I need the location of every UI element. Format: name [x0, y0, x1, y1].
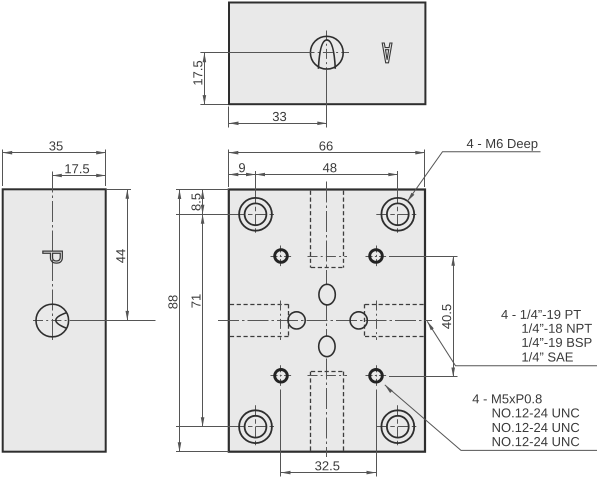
- dim 17.5 top-view upper arrow: [203, 53, 207, 63]
- dim 33 dimension line: [229, 123, 327, 125]
- dim 71 top arrow: [201, 214, 205, 224]
- leader to M6 hole arrow: [407, 193, 414, 202]
- dim 33 left arrow: [229, 122, 239, 126]
- dim 9-48 extension line left hole: [255, 171, 257, 196]
- dim 35 dimension line: [3, 152, 106, 154]
- leader to M5 hole arrow: [385, 385, 393, 393]
- hidden right slot top edge: [365, 304, 424, 306]
- gauge port oval lower: [319, 336, 335, 357]
- dim 88 top arrow: [178, 190, 182, 200]
- dim 88 label: [168, 295, 177, 308]
- dim 35 extension line left: [2, 150, 4, 187]
- top view port hole P circle: [310, 36, 343, 69]
- M6 mounting hole top-right: [376, 193, 419, 236]
- dim 17.5 top-view label: [193, 61, 202, 85]
- M6 mounting hole bottom-left: [234, 405, 277, 448]
- dim 44 extension line at circle center: [75, 320, 156, 322]
- left dims extension line at plate bottom: [176, 451, 229, 453]
- hidden top slot left edge: [310, 191, 312, 268]
- centerline tick across top slot: [308, 256, 348, 258]
- note M5 thread line 1: [472, 394, 541, 403]
- note M5 thread line 3: [493, 423, 580, 432]
- hidden right slot bottom edge: [365, 336, 424, 338]
- dim 35 label: [49, 141, 62, 150]
- left dims extension line at plate top: [176, 189, 229, 191]
- M5 valve mounting hole top-left: [271, 246, 292, 267]
- dim 66 left arrow: [229, 151, 239, 155]
- dim 33 label: [273, 112, 286, 121]
- front view vertical centerline: [326, 182, 328, 458]
- dim 35 right arrow: [96, 151, 106, 155]
- dim 40.5 top arrow: [451, 256, 455, 266]
- hidden top slot bottom edge: [311, 267, 344, 269]
- leader to side port line: [427, 321, 597, 366]
- hidden bottom slot left edge: [310, 372, 312, 451]
- dim 44 extension line top: [106, 189, 131, 191]
- dim 8.5 top arrow: [201, 190, 205, 200]
- M6 mounting hole bottom-right: [376, 405, 419, 448]
- dim 17.5 top-view lower arrow: [203, 95, 207, 105]
- left dims extension line at bottom hole row: [176, 426, 237, 428]
- dim 48 left arrow: [256, 173, 266, 177]
- leader to M5 hole line: [385, 385, 597, 451]
- left view plate body: [3, 189, 106, 451]
- left view port cone beak: [56, 313, 67, 329]
- dim 33 right arrow: [317, 122, 327, 126]
- dim 9 label: [239, 163, 245, 172]
- dim 9-48 extension line right hole: [397, 171, 399, 196]
- M5 valve mounting hole top-right: [366, 246, 387, 267]
- dim 32.5 left arrow: [281, 471, 291, 475]
- dim 66 right arrow: [415, 151, 425, 155]
- dim 35 extension line right: [105, 150, 107, 187]
- dim 17.5 left-view dimension line: [52, 175, 105, 177]
- dim 71 dimension line: [202, 214, 204, 426]
- note port thread line 1: [501, 309, 581, 319]
- M5 valve mounting hole bottom-left: [271, 365, 292, 386]
- note port thread line 2: [522, 323, 592, 333]
- dim 48 dimension line: [256, 174, 398, 176]
- dim 66 dimension line: [229, 152, 425, 154]
- top view plate body: [229, 3, 425, 105]
- top view port spool dome: [318, 40, 335, 69]
- left dims extension line at top hole row: [176, 214, 237, 216]
- dim 44 dimension line: [127, 189, 129, 320]
- leader to side port arrow: [427, 321, 434, 330]
- left view vertical centerline: [52, 172, 54, 343]
- dim 44 label: [116, 249, 125, 263]
- left view port circle: [36, 304, 69, 337]
- gauge port oval upper: [319, 284, 335, 305]
- left view stamped letter P (rotated 90): [43, 251, 63, 263]
- dim 9 dimension line: [229, 174, 256, 176]
- hidden bottom slot right edge: [343, 372, 345, 451]
- leader to M6 hole line: [407, 152, 540, 202]
- dim 17.5 top-view dimension line: [204, 53, 206, 105]
- hidden right slot left edge: [364, 304, 366, 336]
- dim 17.5 top-view extension line at circle center: [200, 52, 311, 54]
- note M5 thread line 2: [493, 408, 580, 417]
- centerline tick across right slot: [376, 301, 378, 341]
- dim 48 right arrow: [388, 173, 398, 177]
- dim 32.5 extension line left: [280, 390, 282, 477]
- dim 33 extension line left: [228, 107, 230, 128]
- hidden left slot top edge: [230, 304, 289, 306]
- hidden bottom slot top edge: [311, 371, 344, 373]
- dim 35 left arrow: [3, 151, 13, 155]
- dim 32.5 right arrow: [367, 471, 377, 475]
- dim 66 label: [319, 141, 332, 150]
- dim 32.5 extension line right: [376, 390, 378, 477]
- dim 32.5 label: [315, 461, 339, 470]
- dim 17.5 left-view right arrow: [96, 174, 106, 178]
- dim 71 label: [192, 294, 201, 307]
- dim 8.5 label: [191, 194, 200, 211]
- note port thread line 3: [522, 337, 591, 347]
- centerline tick across left slot: [280, 301, 282, 341]
- dim 40.5 label: [442, 304, 451, 328]
- centerline tick across bottom slot: [308, 375, 348, 377]
- dim 40.5 bottom arrow: [451, 368, 455, 378]
- dim 17.5 left-view left arrow: [52, 174, 62, 178]
- dim 40.5 extension line top: [389, 256, 458, 258]
- dim 48 label: [323, 163, 337, 172]
- dim 17.5 top-view extension line at plate bottom: [200, 104, 228, 106]
- left view port circle horizontal centerline: [33, 320, 75, 322]
- M6 mounting hole top-left: [234, 193, 277, 236]
- dim 66 extension line right: [424, 150, 426, 188]
- front view plate body: [229, 190, 425, 452]
- top view stamped letter A (upside down): [382, 43, 392, 63]
- dim 8.5 dimension line: [202, 190, 204, 215]
- M5 valve mounting hole bottom-right: [366, 365, 387, 386]
- dim 8.5 bottom arrow: [201, 205, 205, 215]
- dim 88 bottom arrow: [178, 442, 182, 452]
- dim 71 bottom arrow: [201, 417, 205, 427]
- side port circle right: [350, 312, 367, 329]
- dim 44 top arrow: [126, 189, 130, 199]
- side port circle left: [288, 312, 305, 329]
- note M5 thread line 4: [493, 437, 580, 446]
- top view projection line from port circle to 33 dim: [326, 69, 328, 127]
- top view port hole horizontal centerline: [305, 52, 350, 54]
- dim 9 right arrow: [246, 173, 256, 177]
- dim 17.5 left-view label: [65, 164, 89, 173]
- note port thread line 4: [522, 352, 572, 362]
- hidden left slot bottom edge: [230, 336, 289, 338]
- top view port hole vertical centerline: [326, 31, 328, 75]
- dim 32.5 dimension line: [281, 472, 376, 474]
- note 4 - M6 Deep: [467, 139, 538, 151]
- dim 88 dimension line: [179, 190, 181, 452]
- dim 9 left arrow: [229, 173, 239, 177]
- hidden left slot right edge: [288, 304, 290, 336]
- hidden top slot right edge: [343, 191, 345, 268]
- dim 40.5 dimension line: [453, 256, 455, 377]
- dim 44 bottom arrow: [126, 311, 130, 321]
- front view horizontal centerline: [218, 320, 432, 322]
- dim 66 extension line left: [228, 150, 230, 188]
- dim 40.5 extension line bottom: [389, 376, 458, 378]
